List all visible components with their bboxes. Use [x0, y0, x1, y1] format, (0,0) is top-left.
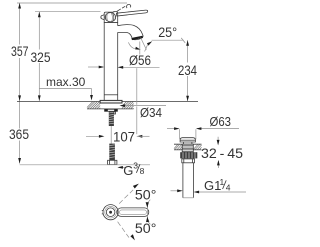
faucet head / cartridge [104, 12, 118, 23]
25° reference line [152, 39, 184, 41]
head left cone [101, 15, 104, 20]
raised lever dashes [117, 9, 121, 12]
svg-text:max.30: max.30 [46, 75, 86, 89]
svg-text:365: 365 [9, 127, 29, 142]
mounting washer [105, 109, 118, 111]
svg-text:357: 357 [11, 44, 29, 59]
lower hose threaded end [108, 144, 117, 165]
25° end tick [181, 38, 185, 43]
svg-text:G: G [123, 163, 133, 178]
drain valve cap [180, 138, 195, 142]
dimension G1 1/4 [171, 189, 247, 193]
spout outlet mousseur [132, 37, 143, 39]
spout [118, 25, 144, 40]
counter hatching left [87, 101, 100, 109]
lever handle (solid) [116, 10, 147, 16]
counter hatching right [122, 101, 134, 109]
svg-text:32 - 45: 32 - 45 [201, 146, 243, 161]
raised lever tip [127, 4, 131, 8]
svg-text:Ø56: Ø56 [129, 53, 151, 68]
dimension 357/365 vertical line [18, 3, 21, 164]
drain valve threaded body [182, 144, 193, 152]
50° lower dashed line [118, 222, 129, 238]
365 bottom reference line [20, 164, 150, 166]
50° upper end arrow [133, 184, 139, 189]
50° upper arc arrows [146, 202, 149, 208]
dimension 107 [86, 128, 150, 138]
extension line top 357 [17, 2, 127, 4]
svg-text:325: 325 [31, 50, 51, 65]
dimension 32-45 [217, 137, 220, 168]
extension line top 325 [35, 11, 101, 13]
text G3/8 [123, 161, 144, 179]
base plate [100, 100, 122, 103]
top view: lever pivot circles [102, 205, 118, 220]
dimension Ø63 [167, 127, 239, 130]
svg-text:Ø63: Ø63 [210, 114, 232, 129]
svg-text:50°: 50° [135, 187, 157, 202]
dimension 325 vertical line [38, 12, 41, 101]
svg-text:25°: 25° [158, 25, 177, 40]
drain valve Ø63 extension lines [179, 129, 181, 139]
basin hatching [174, 144, 202, 150]
svg-text:107: 107 [113, 130, 135, 145]
lever tip tick [147, 204, 149, 219]
text G1 1/4 [204, 177, 231, 193]
flexible hose line [110, 126, 112, 144]
svg-text:8: 8 [140, 166, 145, 176]
dimension Ø34 leader [120, 104, 167, 107]
G3/8 collar [108, 160, 117, 164]
drain tailpipe [183, 163, 194, 198]
svg-text:3: 3 [133, 161, 138, 171]
dimension Ø56 line [88, 66, 160, 69]
svg-text:50°: 50° [135, 221, 157, 236]
top view: lever bar [117, 208, 149, 217]
max.30 leader line [39, 89, 93, 101]
outlet dimension cluster (Ø56 leaders) [128, 38, 152, 55]
drain valve washer [182, 159, 195, 163]
svg-text:4: 4 [226, 182, 231, 192]
svg-text:234: 234 [178, 62, 197, 78]
50° upper dashed line [119, 190, 133, 204]
countertop surface line [17, 101, 198, 109]
basin surface at drain [174, 144, 202, 150]
extension line outlet->107 [136, 68, 138, 105]
svg-text:Ø34: Ø34 [140, 105, 162, 120]
drain valve neck [183, 142, 185, 144]
faucet body [104, 23, 118, 101]
threaded mounting stud [109, 111, 116, 126]
50° lower end arrow [130, 234, 135, 240]
drain valve nut [180, 152, 197, 158]
dimension 234 vertical [186, 40, 189, 101]
G3/8 leader arrow [117, 166, 126, 169]
